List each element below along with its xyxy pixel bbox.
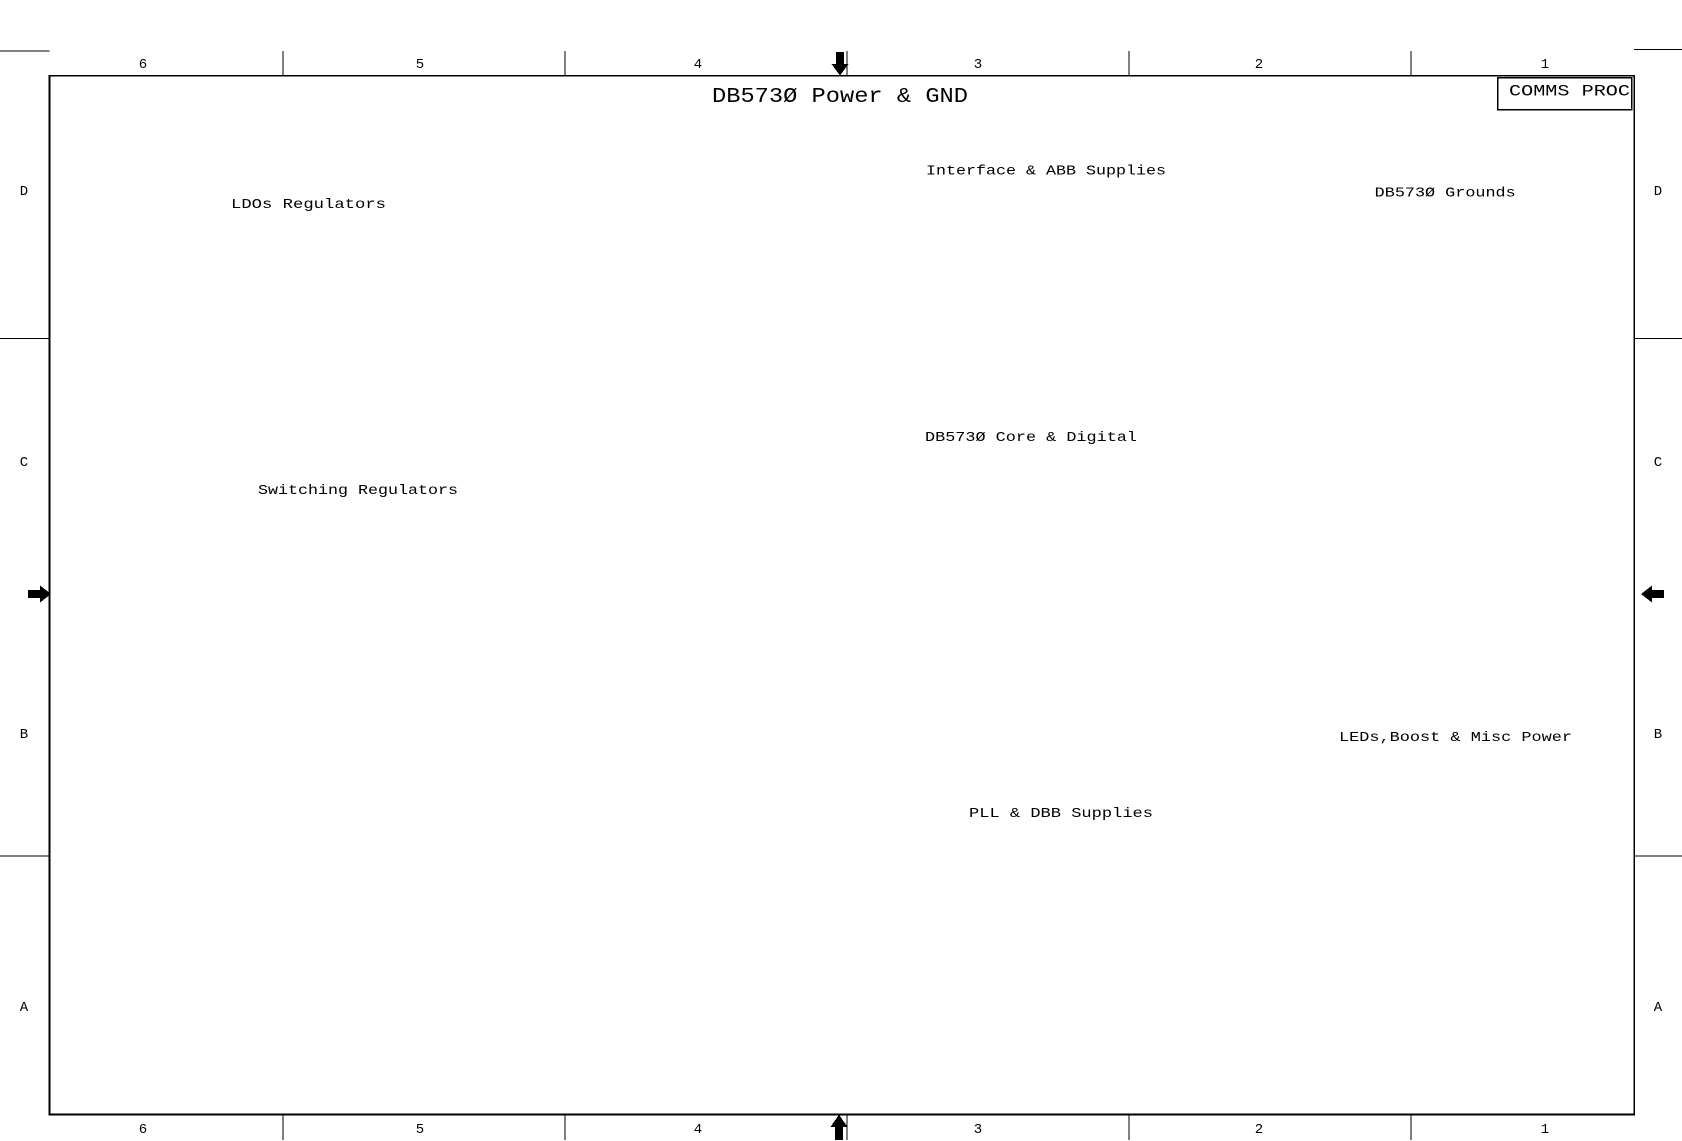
fold arrow bottom [831,1115,848,1141]
svg-text:COMMS PROC: COMMS PROC [1509,83,1630,101]
svg-text:B: B [1654,727,1662,743]
svg-text:6: 6 [139,1122,147,1138]
svg-text:1: 1 [1541,1122,1549,1138]
svg-text:Interface & ABB Supplies: Interface & ABB Supplies [926,164,1166,180]
svg-text:A: A [20,1000,29,1016]
svg-text:LEDs,Boost & Misc Power: LEDs,Boost & Misc Power [1339,730,1572,746]
svg-text:DB573Ø Core & Digital: DB573Ø Core & Digital [925,430,1137,446]
fold arrow top [832,52,849,76]
svg-text:C: C [20,455,28,471]
svg-text:1: 1 [1541,57,1549,73]
svg-text:DB573Ø Power & GND: DB573Ø Power & GND [712,85,968,109]
border zone ticks bottom [282,1115,284,1141]
border zone ticks right [1634,338,1682,340]
svg-text:5: 5 [416,1122,424,1138]
border zone ticks left [0,338,50,340]
svg-text:Switching Regulators: Switching Regulators [258,483,458,499]
svg-text:LDOs Regulators: LDOs Regulators [231,197,386,213]
svg-text:3: 3 [974,57,982,73]
fold arrow left [28,586,51,603]
svg-text:2: 2 [1255,1122,1263,1138]
border zone ticks top [282,51,284,76]
border corner mark top-left [0,50,50,52]
svg-text:D: D [1654,184,1662,200]
svg-text:5: 5 [416,57,424,73]
svg-text:PLL & DBB Supplies: PLL & DBB Supplies [969,806,1153,822]
svg-text:D: D [20,184,28,200]
border corner mark top-right [1634,49,1682,51]
svg-text:2: 2 [1255,57,1263,73]
svg-text:4: 4 [694,57,702,73]
svg-text:C: C [1654,455,1662,471]
svg-text:3: 3 [974,1122,982,1138]
svg-text:DB573Ø Grounds: DB573Ø Grounds [1375,186,1516,202]
svg-text:A: A [1654,1000,1663,1016]
svg-text:B: B [20,727,28,743]
fold arrow right [1641,586,1664,603]
svg-text:4: 4 [694,1122,702,1138]
svg-text:6: 6 [139,57,147,73]
COMMS PROC box [1498,78,1632,110]
